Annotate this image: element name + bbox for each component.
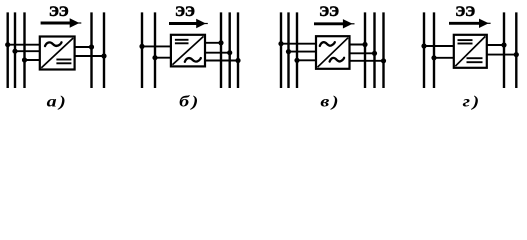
junction dot bbox=[362, 42, 367, 47]
wire left 3 bbox=[25, 59, 42, 61]
converter box Uг bbox=[454, 35, 487, 68]
wire right 2 bbox=[73, 55, 104, 57]
wire left 2 bbox=[15, 50, 41, 52]
left bus line 2 bbox=[287, 12, 289, 88]
junction dot bbox=[286, 49, 291, 54]
svg-text:ЭЭ: ЭЭ bbox=[455, 4, 475, 20]
left bus line 1 bbox=[280, 12, 282, 88]
diagonal divider bbox=[41, 38, 73, 68]
panel б) bbox=[139, 4, 240, 111]
energy flow arrow bbox=[169, 22, 198, 25]
AC symbol ~ (input) bbox=[45, 42, 62, 46]
wire right 1 bbox=[348, 44, 365, 46]
right bus line 2 bbox=[373, 12, 375, 88]
wire right 2 bbox=[348, 52, 375, 54]
junction dot bbox=[431, 55, 436, 60]
wire left 2 bbox=[434, 57, 455, 59]
DC symbol = (output) bbox=[56, 59, 71, 61]
DC symbol = (output) bbox=[467, 57, 483, 59]
wire left 1 bbox=[424, 45, 455, 47]
AC symbol ~ (output) bbox=[330, 58, 345, 62]
junction dot bbox=[218, 40, 223, 45]
panel г) bbox=[421, 4, 519, 111]
left bus line 3 bbox=[23, 12, 25, 88]
energy flow arrow bbox=[41, 22, 72, 25]
panel в) bbox=[278, 4, 386, 111]
svg-text:в): в) bbox=[320, 92, 341, 111]
wire right 2 bbox=[204, 52, 230, 54]
right bus line 1 bbox=[503, 12, 505, 88]
right bus line 2 bbox=[515, 12, 517, 88]
svg-text:ЭЭ: ЭЭ bbox=[175, 4, 195, 20]
svg-text:а): а) bbox=[47, 92, 69, 111]
junction dot bbox=[12, 49, 17, 54]
left bus line 2 bbox=[14, 12, 16, 88]
junction dot bbox=[381, 58, 386, 63]
AC symbol ~ (input) bbox=[320, 42, 335, 46]
right bus line 2 bbox=[103, 12, 105, 88]
junction dot bbox=[152, 55, 157, 60]
DC symbol = (input) bbox=[458, 39, 473, 41]
right bus line 1 bbox=[220, 12, 222, 88]
junction dot bbox=[227, 50, 232, 55]
junction dot bbox=[421, 43, 426, 48]
left bus line 3 bbox=[296, 12, 298, 88]
left bus line 1 bbox=[141, 12, 143, 88]
junction dot bbox=[372, 51, 377, 56]
left bus line 1 bbox=[423, 12, 425, 88]
left bus line 2 bbox=[154, 12, 156, 88]
wire right 3 bbox=[204, 60, 239, 62]
svg-text:г): г) bbox=[463, 92, 482, 111]
wire left 1 bbox=[281, 43, 318, 45]
wire right 3 bbox=[348, 60, 384, 62]
diagonal divider bbox=[455, 36, 485, 66]
converter box Uв bbox=[316, 36, 350, 69]
left bus line 2 bbox=[433, 12, 435, 88]
right bus line 1 bbox=[90, 12, 92, 88]
junction dot bbox=[235, 58, 240, 63]
diagonal divider bbox=[318, 38, 349, 67]
panel а) bbox=[5, 4, 107, 111]
right bus line 3 bbox=[237, 12, 239, 88]
DC symbol = (input) bbox=[175, 39, 189, 41]
junction dot bbox=[514, 52, 519, 57]
junction dot bbox=[294, 58, 299, 63]
junction dot bbox=[89, 44, 94, 49]
right bus line 3 bbox=[382, 12, 384, 88]
right bus line 2 bbox=[228, 12, 230, 88]
energy flow arrow bbox=[314, 22, 345, 25]
converter box Uб bbox=[171, 35, 205, 67]
wire left 1 bbox=[142, 45, 172, 47]
wire right 1 bbox=[204, 42, 222, 44]
junction dot bbox=[278, 41, 283, 46]
svg-text:ЭЭ: ЭЭ bbox=[49, 4, 69, 20]
energy flow arrow bbox=[449, 22, 481, 25]
junction dot bbox=[501, 42, 506, 47]
wire right 2 bbox=[485, 54, 516, 56]
diagonal divider bbox=[172, 36, 203, 64]
converter box Uа bbox=[40, 37, 75, 70]
svg-text:б): б) bbox=[179, 92, 201, 111]
junction dot bbox=[101, 53, 106, 58]
junction dot bbox=[22, 57, 27, 62]
junction dot bbox=[5, 42, 10, 47]
wire right 1 bbox=[485, 44, 504, 46]
AC symbol ~ (output) bbox=[185, 58, 201, 62]
wire left 1 bbox=[8, 44, 42, 46]
wire left 3 bbox=[297, 59, 318, 61]
wire left 2 bbox=[289, 51, 318, 53]
wire left 2 bbox=[155, 57, 172, 59]
right bus line 1 bbox=[364, 12, 366, 88]
wire right 1 bbox=[73, 46, 91, 48]
junction dot bbox=[139, 44, 144, 49]
left bus line 1 bbox=[6, 12, 8, 88]
svg-text:ЭЭ: ЭЭ bbox=[319, 4, 339, 20]
